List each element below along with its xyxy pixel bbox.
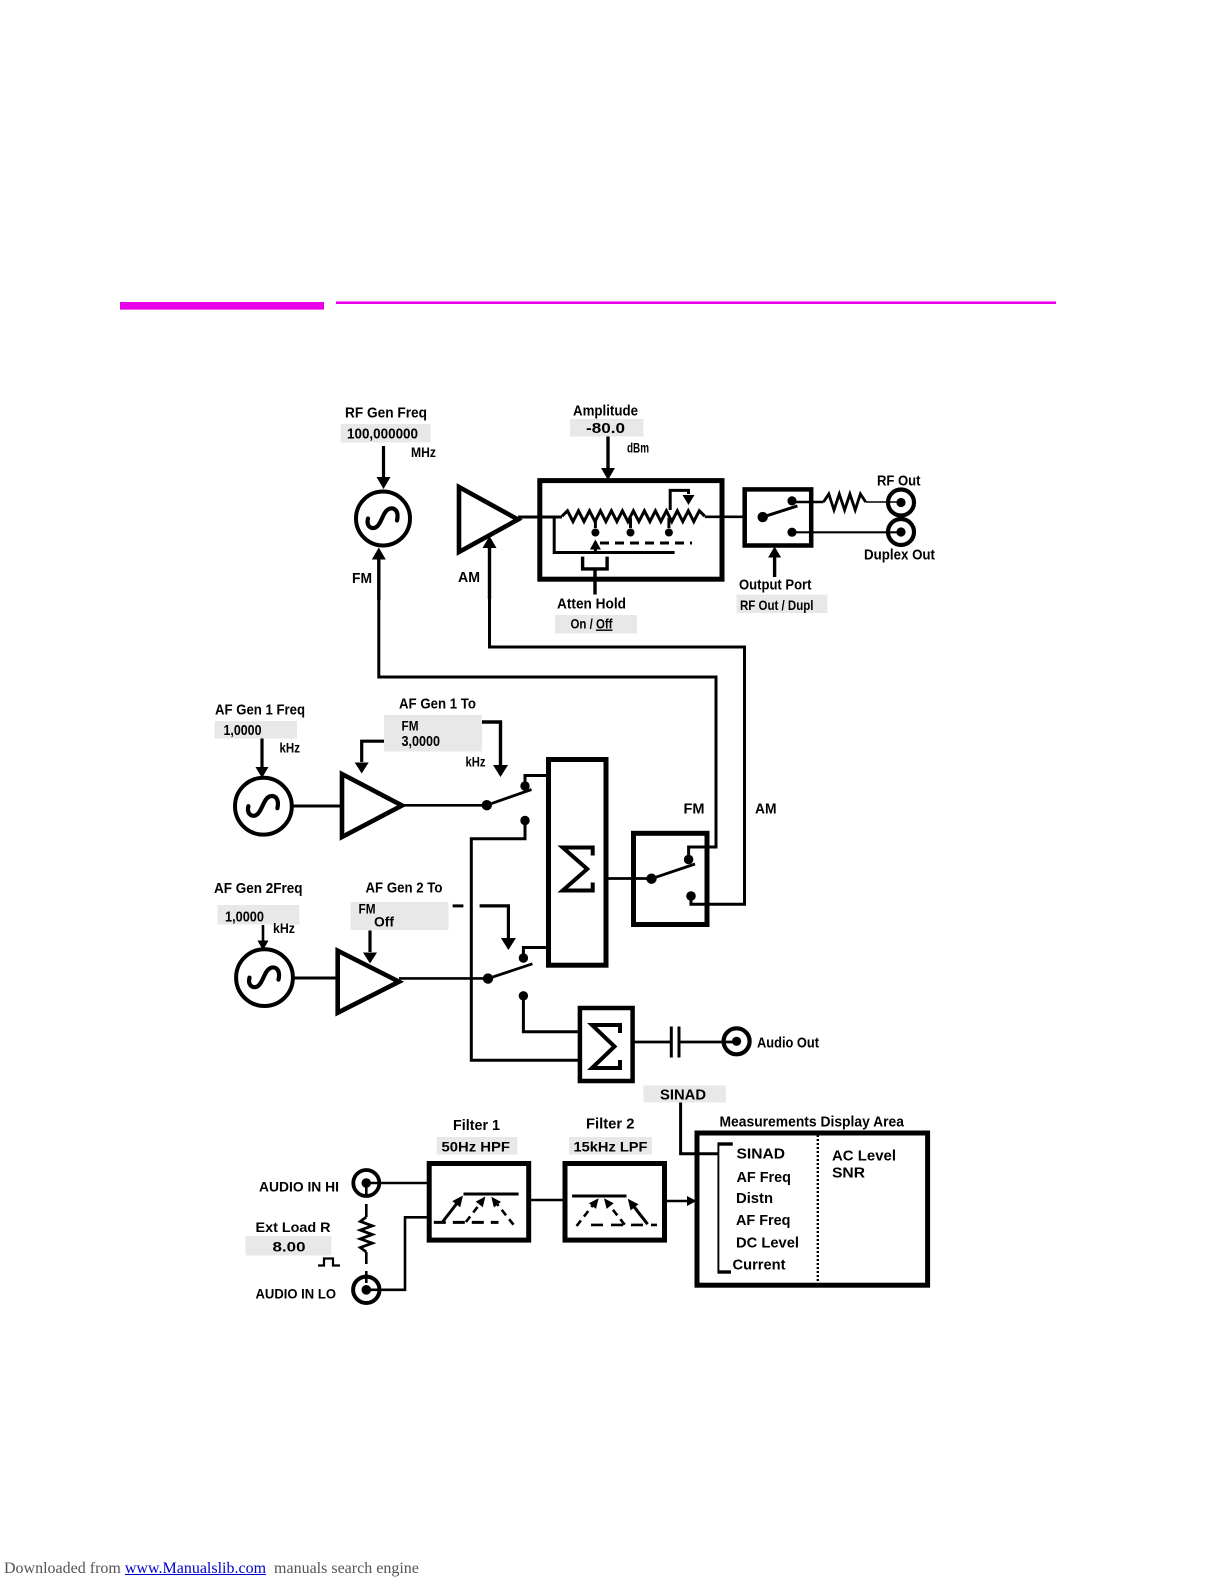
switch S2 pivot xyxy=(482,800,492,810)
svg-text:FM: FM xyxy=(359,901,376,917)
svg-text:dBm: dBm xyxy=(627,440,649,456)
amplifier AM modulator xyxy=(459,487,518,552)
sigma symbol U2 xyxy=(592,1025,620,1068)
filter 1 response glyph xyxy=(434,1194,519,1225)
resistor Ext Load R xyxy=(360,1217,372,1252)
label Duplex Out xyxy=(864,547,935,564)
svg-text:AF Gen 2 To: AF Gen 2 To xyxy=(366,880,443,897)
svg-text:kHz: kHz xyxy=(466,754,486,770)
label Atten Hold xyxy=(557,596,626,613)
value box Amplitude xyxy=(570,419,644,437)
svg-text:100,000000: 100,000000 xyxy=(347,426,418,443)
label AUDIO IN HI xyxy=(259,1179,339,1195)
svg-text:AF Freq: AF Freq xyxy=(736,1212,791,1229)
attenuator resistor ladder xyxy=(562,511,705,522)
value box RF Gen Freq xyxy=(341,424,431,443)
svg-text:On / Off: On / Off xyxy=(571,616,613,632)
output port switch box xyxy=(745,489,812,545)
svg-text:AF Gen 1 To: AF Gen 1 To xyxy=(399,696,476,713)
connector AUDIO IN LO xyxy=(353,1277,379,1303)
svg-text:Audio Out: Audio Out xyxy=(757,1035,819,1052)
value box AF Gen 1 To xyxy=(384,715,482,752)
measurement AF Freq 2 xyxy=(736,1212,791,1229)
unit kHz (AF Gen 2) xyxy=(273,920,295,936)
arrow RF Gen Freq into oscillator xyxy=(377,446,391,489)
svg-text:Off: Off xyxy=(374,914,394,930)
svg-text:AF Gen 2Freq: AF Gen 2Freq xyxy=(214,880,303,897)
svg-text:MHz: MHz xyxy=(411,444,436,460)
svg-text:1,0000: 1,0000 xyxy=(224,722,262,739)
svg-text:AM: AM xyxy=(755,801,777,818)
svg-text:FM: FM xyxy=(684,801,705,818)
display divider dotted xyxy=(817,1135,819,1283)
switch S1 arm xyxy=(763,506,798,517)
connector Duplex Out xyxy=(888,519,914,545)
svg-text:SINAD: SINAD xyxy=(660,1087,706,1104)
label Ext Load R xyxy=(256,1219,331,1235)
measurement Current xyxy=(733,1257,786,1274)
label AF Gen 2Freq xyxy=(214,880,303,897)
capacitor C1 xyxy=(671,1027,679,1058)
value box 15kHz LPF xyxy=(569,1137,652,1155)
measurement AC Level xyxy=(832,1148,896,1165)
unit kHz (AF Gen 1 To) xyxy=(466,754,486,770)
wire switch to Duplex jack xyxy=(792,531,901,533)
wire S2 upper contact to summer xyxy=(525,776,549,787)
footer manualslib note xyxy=(4,1560,419,1578)
switch S5 pivot xyxy=(646,874,656,884)
svg-text:Atten Hold: Atten Hold xyxy=(557,596,626,613)
measurements display box xyxy=(697,1133,928,1285)
wire SINAD to display bracket xyxy=(681,1103,719,1154)
svg-text:50Hz HPF: 50Hz HPF xyxy=(442,1139,511,1155)
svg-text:Current: Current xyxy=(733,1257,786,1274)
wire oscillator to amplifier A2 xyxy=(293,977,338,980)
wire Atten Hold stem xyxy=(593,568,596,595)
svg-text:Amplitude: Amplitude xyxy=(573,403,638,420)
svg-text:AF Freq: AF Freq xyxy=(737,1169,792,1186)
attenuator wiper dashed track xyxy=(600,542,692,545)
svg-text:RF Out / Dupl: RF Out / Dupl xyxy=(740,597,814,613)
wire summer U2 to capacitor xyxy=(633,1041,671,1044)
switch S4 arm xyxy=(488,964,532,979)
switch S1 contact Duplex xyxy=(787,528,796,537)
arrow AF Gen 1 To right hook xyxy=(482,722,508,777)
wire capacitor to Audio Out jack xyxy=(678,1041,736,1044)
attenuator common return wire xyxy=(554,517,674,553)
filter 2 box xyxy=(565,1164,665,1241)
label AM (mod select) xyxy=(755,801,777,818)
amplifier A2 (AF Gen 2) xyxy=(338,951,399,1013)
filter 2 response glyph xyxy=(572,1196,657,1226)
value box SINAD xyxy=(644,1086,727,1104)
svg-text:Output Port: Output Port xyxy=(739,577,812,594)
attenuator box xyxy=(540,481,722,580)
switch S4 contact upper xyxy=(519,953,528,962)
wire HI to load resistor xyxy=(365,1183,368,1217)
arrow Amplitude into attenuator xyxy=(601,437,615,481)
label Audio Out xyxy=(757,1035,819,1052)
label RF Gen Freq xyxy=(345,405,427,422)
label AF Gen 2 To xyxy=(366,880,443,897)
sigma symbol U1 xyxy=(563,848,593,891)
display bracket xyxy=(718,1143,733,1274)
switch S4 pivot xyxy=(483,973,493,983)
switch S1 contact RF xyxy=(787,496,796,505)
wire AUDIO IN LO to filter 1 xyxy=(366,1217,429,1290)
svg-text:RF Out: RF Out xyxy=(877,473,921,490)
label RF Out xyxy=(877,473,921,490)
svg-text:Measurements Display Area: Measurements Display Area xyxy=(720,1114,905,1131)
wire attenuator to output switch xyxy=(705,515,745,518)
svg-text:AUDIO IN HI: AUDIO IN HI xyxy=(259,1179,339,1195)
RF oscillator G1 xyxy=(356,492,410,546)
connector RF Out xyxy=(888,490,914,516)
svg-text:1,0000: 1,0000 xyxy=(225,909,264,926)
arrow FM into oscillator xyxy=(372,548,386,601)
value box 50Hz HPF xyxy=(437,1137,518,1155)
connector AUDIO IN HI xyxy=(353,1170,379,1196)
label AF Gen 1 To xyxy=(399,696,476,713)
wire filter 1 to filter 2 xyxy=(529,1199,565,1202)
resistor RF Out series xyxy=(824,494,866,510)
value box AF Gen 2 Freq xyxy=(218,905,300,926)
amplifier A1 (AF Gen 1) xyxy=(342,774,402,837)
wire AM path from mod switch xyxy=(490,597,745,904)
value box On / Off xyxy=(555,615,637,634)
measurement DC Level xyxy=(736,1235,799,1252)
wire switch to RF resistor xyxy=(792,501,824,504)
switch S5 contact AM xyxy=(686,891,696,901)
svg-text:kHz: kHz xyxy=(280,740,301,756)
switch S2 arm xyxy=(487,790,532,806)
svg-text:Filter 2: Filter 2 xyxy=(586,1116,635,1133)
value box RF Out / Dupl xyxy=(737,595,828,614)
svg-text:FM: FM xyxy=(402,718,419,734)
unit kHz (AF Gen 1) xyxy=(280,740,301,756)
value box AF Gen 2 To xyxy=(351,901,449,931)
arrow filter 2 to display xyxy=(665,1196,697,1206)
value box 8.00 xyxy=(246,1236,332,1256)
label AM (amplifier input) xyxy=(458,569,480,586)
arrow AF Gen 2 Freq into oscillator xyxy=(258,925,269,951)
connector Audio Out xyxy=(724,1028,750,1054)
unit dBm xyxy=(627,440,649,456)
label Measurements Display Area xyxy=(720,1114,905,1131)
svg-text:Filter 1: Filter 1 xyxy=(453,1117,500,1134)
arrow Output Port xyxy=(768,547,781,578)
AF oscillator G2 xyxy=(235,778,292,835)
label AUDIO IN LO xyxy=(256,1286,337,1302)
attenuator wiper arrow xyxy=(590,540,601,553)
measurement AF Freq 1 xyxy=(737,1169,792,1186)
arrow AF Gen 1 Freq into oscillator xyxy=(256,739,269,779)
switch S1 pivot xyxy=(758,512,768,522)
arrow AF Gen 1 To left hook xyxy=(355,741,384,773)
measurement SINAD xyxy=(737,1146,786,1163)
wire oscillator to amplifier A1 xyxy=(292,805,342,808)
wire S4 upper contact to summer xyxy=(523,948,548,959)
measurement Distn xyxy=(736,1190,773,1207)
filter 1 box xyxy=(429,1164,529,1241)
arrow AM into amplifier xyxy=(483,536,497,599)
wire FM path from mod switch xyxy=(379,598,716,858)
arrow AF Gen 2 To into amplifier xyxy=(363,931,377,964)
wire S2 lower contact to audio summer xyxy=(471,821,580,1061)
switch S2 contact upper xyxy=(520,781,529,790)
wire amplifier A2 to switch S4 xyxy=(399,977,488,980)
attenuator vernier arrow xyxy=(670,490,694,510)
switch S5 arm xyxy=(652,864,696,879)
svg-text:-80.0: -80.0 xyxy=(586,420,625,437)
svg-text:AM: AM xyxy=(458,569,480,586)
label Output Port xyxy=(739,577,812,594)
header rule (thin magenta) xyxy=(336,301,1056,304)
modulation switch box xyxy=(634,833,708,924)
label FM (RF modulation) xyxy=(352,570,372,587)
value box AF Gen 1 Freq xyxy=(215,721,298,739)
wire load resistor to LO xyxy=(365,1252,368,1290)
label Filter 2 xyxy=(586,1116,635,1133)
wire resistor to RF Out jack xyxy=(866,501,901,503)
svg-text:DC Level: DC Level xyxy=(736,1235,799,1252)
label AF Gen 1 Freq xyxy=(215,702,305,719)
svg-text:SNR: SNR xyxy=(832,1165,865,1182)
wire AUDIO IN HI to filter 1 xyxy=(366,1182,429,1185)
svg-text:RF Gen Freq: RF Gen Freq xyxy=(345,405,427,422)
switch S5 contact FM xyxy=(684,855,694,865)
svg-text:8.00: 8.00 xyxy=(273,1239,306,1255)
wire S4 lower contact to audio summer xyxy=(523,996,580,1032)
summer U2 (audio) xyxy=(580,1008,633,1081)
AF oscillator G3 xyxy=(236,949,293,1006)
svg-text:SINAD: SINAD xyxy=(737,1146,786,1163)
attenuator control bracket xyxy=(583,557,608,569)
svg-text:FM: FM xyxy=(352,570,372,587)
svg-text:Ext Load R: Ext Load R xyxy=(256,1219,331,1235)
header bar (thick magenta) xyxy=(120,302,324,310)
attenuator tap stubs and dots xyxy=(591,518,673,537)
svg-text:Distn: Distn xyxy=(736,1190,773,1207)
svg-text:AC Level: AC Level xyxy=(832,1148,896,1165)
svg-text:3,0000: 3,0000 xyxy=(402,733,441,750)
measurement SNR xyxy=(832,1165,865,1182)
svg-text:kHz: kHz xyxy=(273,920,295,936)
svg-text:15kHz LPF: 15kHz LPF xyxy=(574,1139,648,1155)
svg-text:AUDIO IN LO: AUDIO IN LO xyxy=(256,1286,337,1302)
label FM (mod select) xyxy=(684,801,705,818)
pulse symbol xyxy=(318,1259,340,1266)
wire amplifier A1 to switch S2 xyxy=(402,804,487,807)
wire summer to mod switch xyxy=(606,877,652,880)
wire amplifier to attenuator ladder xyxy=(518,516,562,519)
label Amplitude xyxy=(573,403,638,420)
unit MHz xyxy=(411,444,436,460)
summer U1 (modulation) xyxy=(549,760,607,966)
svg-text:AF Gen 1 Freq: AF Gen 1 Freq xyxy=(215,702,305,719)
switch S4 contact lower xyxy=(519,991,528,1000)
wire AF Gen 2 To dashed hook xyxy=(453,906,516,950)
label Filter 1 xyxy=(453,1117,500,1134)
svg-text:Duplex Out: Duplex Out xyxy=(864,547,935,564)
switch S2 contact lower xyxy=(520,816,529,825)
